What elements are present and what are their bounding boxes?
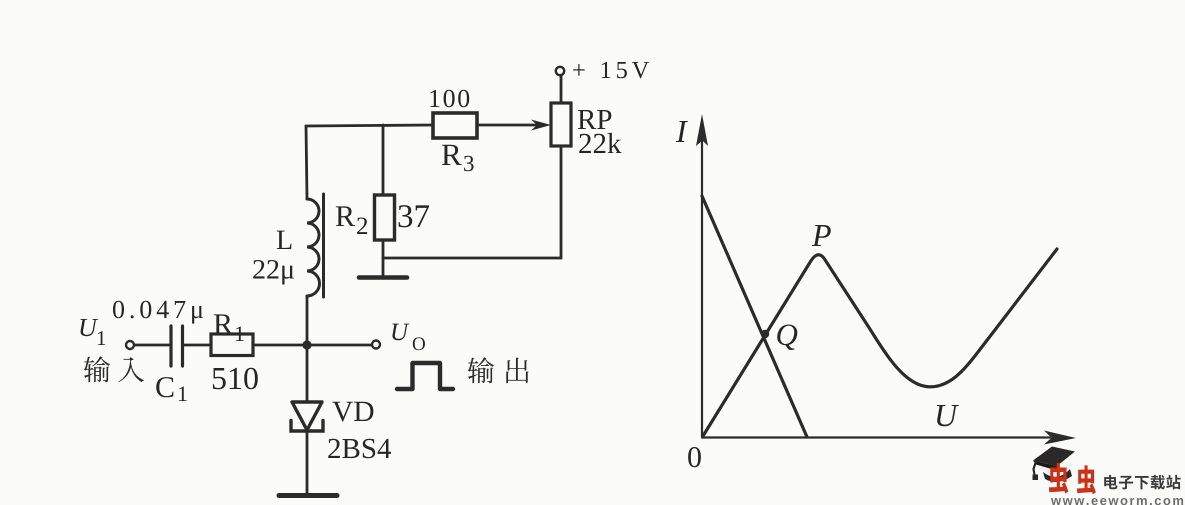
load line	[702, 196, 807, 437]
operating point Q dot	[761, 330, 769, 338]
potentiometer RP body	[551, 103, 571, 146]
graph x-axis	[702, 436, 1050, 438]
label U1	[80, 319, 98, 336]
tunnel diode VD (anode triangle)	[292, 402, 322, 430]
watermark graduation cap icon	[1033, 447, 1076, 482]
wire top rail down to R2	[382, 125, 385, 195]
resistor R3	[433, 113, 477, 138]
wire RP top to +15V terminal	[560, 76, 563, 104]
ground below R2	[359, 275, 407, 280]
wire R1 to node A	[253, 344, 307, 347]
label R3	[442, 145, 462, 165]
inductor core bar	[322, 194, 325, 297]
label 22k	[579, 134, 591, 153]
wire diode to ground	[306, 431, 309, 495]
label 100	[430, 90, 439, 107]
wire inductor top to top rail	[306, 126, 307, 199]
wire input terminal to C1	[135, 344, 171, 347]
inductor L coil	[307, 199, 320, 296]
label 37	[399, 205, 413, 227]
wire node A to output terminal	[307, 344, 372, 347]
label R1	[214, 314, 233, 334]
label 0.047μ	[113, 301, 124, 319]
tunnel diode I-V characteristic curve	[703, 249, 1057, 436]
graph y-axis	[701, 140, 703, 437]
tunnel diode VD (cathode bracket)	[291, 421, 323, 432]
label L	[277, 231, 292, 249]
label I (y axis)	[676, 121, 688, 142]
x-axis arrowhead	[1044, 431, 1076, 445]
label 510	[213, 368, 226, 389]
label Q (operating point)	[777, 324, 797, 350]
label 0 (origin)	[688, 447, 701, 467]
label U (x axis)	[937, 405, 959, 426]
capacitor C1	[171, 326, 183, 366]
output terminal UO	[372, 341, 380, 349]
wire node A down to diode VD	[306, 345, 309, 402]
output pulse waveform symbol	[397, 363, 453, 389]
wire RP bottom to R2 bottom node	[383, 146, 561, 258]
watermark 虫虫 logo text	[1049, 463, 1068, 493]
label P (peak point)	[812, 225, 831, 246]
label 2BS4	[328, 439, 340, 458]
wire R3 to RP wiper	[477, 124, 540, 127]
wire R2 to ground	[382, 240, 385, 277]
resistor R1	[211, 334, 253, 356]
label 输出 (output)	[468, 357, 494, 383]
y-axis arrowhead	[696, 114, 708, 146]
+15V supply terminal	[556, 67, 564, 75]
label +15V	[573, 64, 584, 75]
watermark 电子下载站 text	[1104, 475, 1117, 489]
ground below VD	[279, 493, 337, 498]
label R2	[336, 206, 355, 226]
label C1	[156, 377, 173, 397]
label 输入 (input)	[84, 356, 110, 382]
wiper arrowhead into RP	[531, 120, 551, 131]
node A junction dot	[302, 340, 311, 349]
label VD	[332, 402, 353, 422]
resistor R2	[375, 195, 395, 240]
wire top rail	[306, 125, 433, 126]
watermark www.eeworm.com text	[1051, 498, 1061, 505]
label UO	[392, 324, 409, 341]
input terminal U1	[126, 341, 134, 349]
label RP	[578, 110, 596, 129]
wire C1 to R1	[183, 344, 211, 347]
label 22μ	[253, 260, 264, 279]
wire node A up to inductor L	[306, 296, 309, 345]
